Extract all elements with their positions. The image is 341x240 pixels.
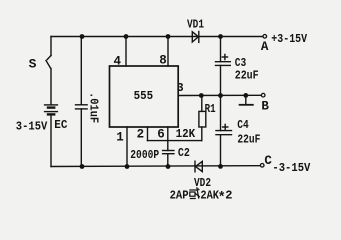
svg-text:3-15V: 3-15V (16, 119, 48, 133)
svg-text:.01uF: .01uF (87, 92, 101, 123)
capacitor C4 (220, 96, 222, 131)
terminal A (263, 35, 267, 39)
svg-text:12K: 12K (176, 127, 196, 141)
svg-text:R1: R1 (205, 103, 216, 116)
capacitor C3 (220, 37, 222, 62)
svg-text:C: C (264, 154, 272, 168)
node dots pin3 line (199, 93, 204, 98)
svg-text:6: 6 (157, 127, 165, 141)
svg-text:EC: EC (54, 118, 67, 132)
svg-text:2AP: 2AP (170, 188, 189, 202)
svg-text:C4: C4 (237, 118, 249, 132)
wire pin 3 (178, 94, 261, 96)
svg-text:22uF: 22uF (235, 69, 259, 83)
wire bracket pins 2-6 to R1 (148, 140, 202, 142)
wire top rail (51, 36, 263, 38)
battery EC (45, 104, 58, 106)
diode VD2 (194, 161, 196, 172)
wire pin 4 (125, 37, 127, 67)
plus sign C3 (222, 56, 227, 58)
ground at node B (245, 96, 247, 105)
svg-text:C2: C2 (178, 146, 190, 160)
node dots bottom rail (80, 164, 85, 169)
svg-text:2: 2 (137, 127, 145, 141)
terminal C (260, 164, 264, 168)
IC 555 U1 (110, 66, 179, 127)
svg-text:S: S (29, 57, 37, 72)
capacitor C2 (167, 141, 169, 151)
svg-text:1: 1 (116, 130, 124, 144)
wire pin 8 (167, 37, 169, 67)
wire pin 1 (126, 127, 128, 167)
svg-text:B: B (261, 99, 269, 113)
svg-text:4: 4 (114, 55, 122, 69)
svg-text:8: 8 (159, 53, 167, 67)
node dots top rail (80, 34, 85, 39)
svg-text:3: 3 (177, 82, 184, 95)
capacitor .01uF (80, 37, 82, 105)
diode VD1 (192, 32, 198, 42)
resistor R1 (201, 96, 203, 112)
svg-text:2: 2 (225, 188, 232, 202)
svg-text:+3-15V: +3-15V (271, 32, 307, 46)
svg-text:VD1: VD1 (187, 17, 204, 31)
svg-text:555: 555 (134, 90, 154, 103)
wire left drop to switch (50, 37, 52, 56)
svg-text:-3-15V: -3-15V (272, 161, 311, 175)
glyph 或 (Chinese "or") hand-drawn (189, 187, 200, 199)
wire pin 2 (147, 127, 149, 141)
wire pin 6 (167, 127, 169, 141)
svg-text:22uF: 22uF (237, 132, 260, 146)
svg-text:A: A (261, 40, 269, 54)
plus sign C4 (223, 126, 228, 128)
svg-text:2000P: 2000P (130, 148, 159, 162)
terminal B (261, 93, 265, 97)
wire battery to bottom rail (50, 114, 52, 166)
switch S (47, 56, 51, 60)
wire bottom rail (51, 165, 260, 168)
